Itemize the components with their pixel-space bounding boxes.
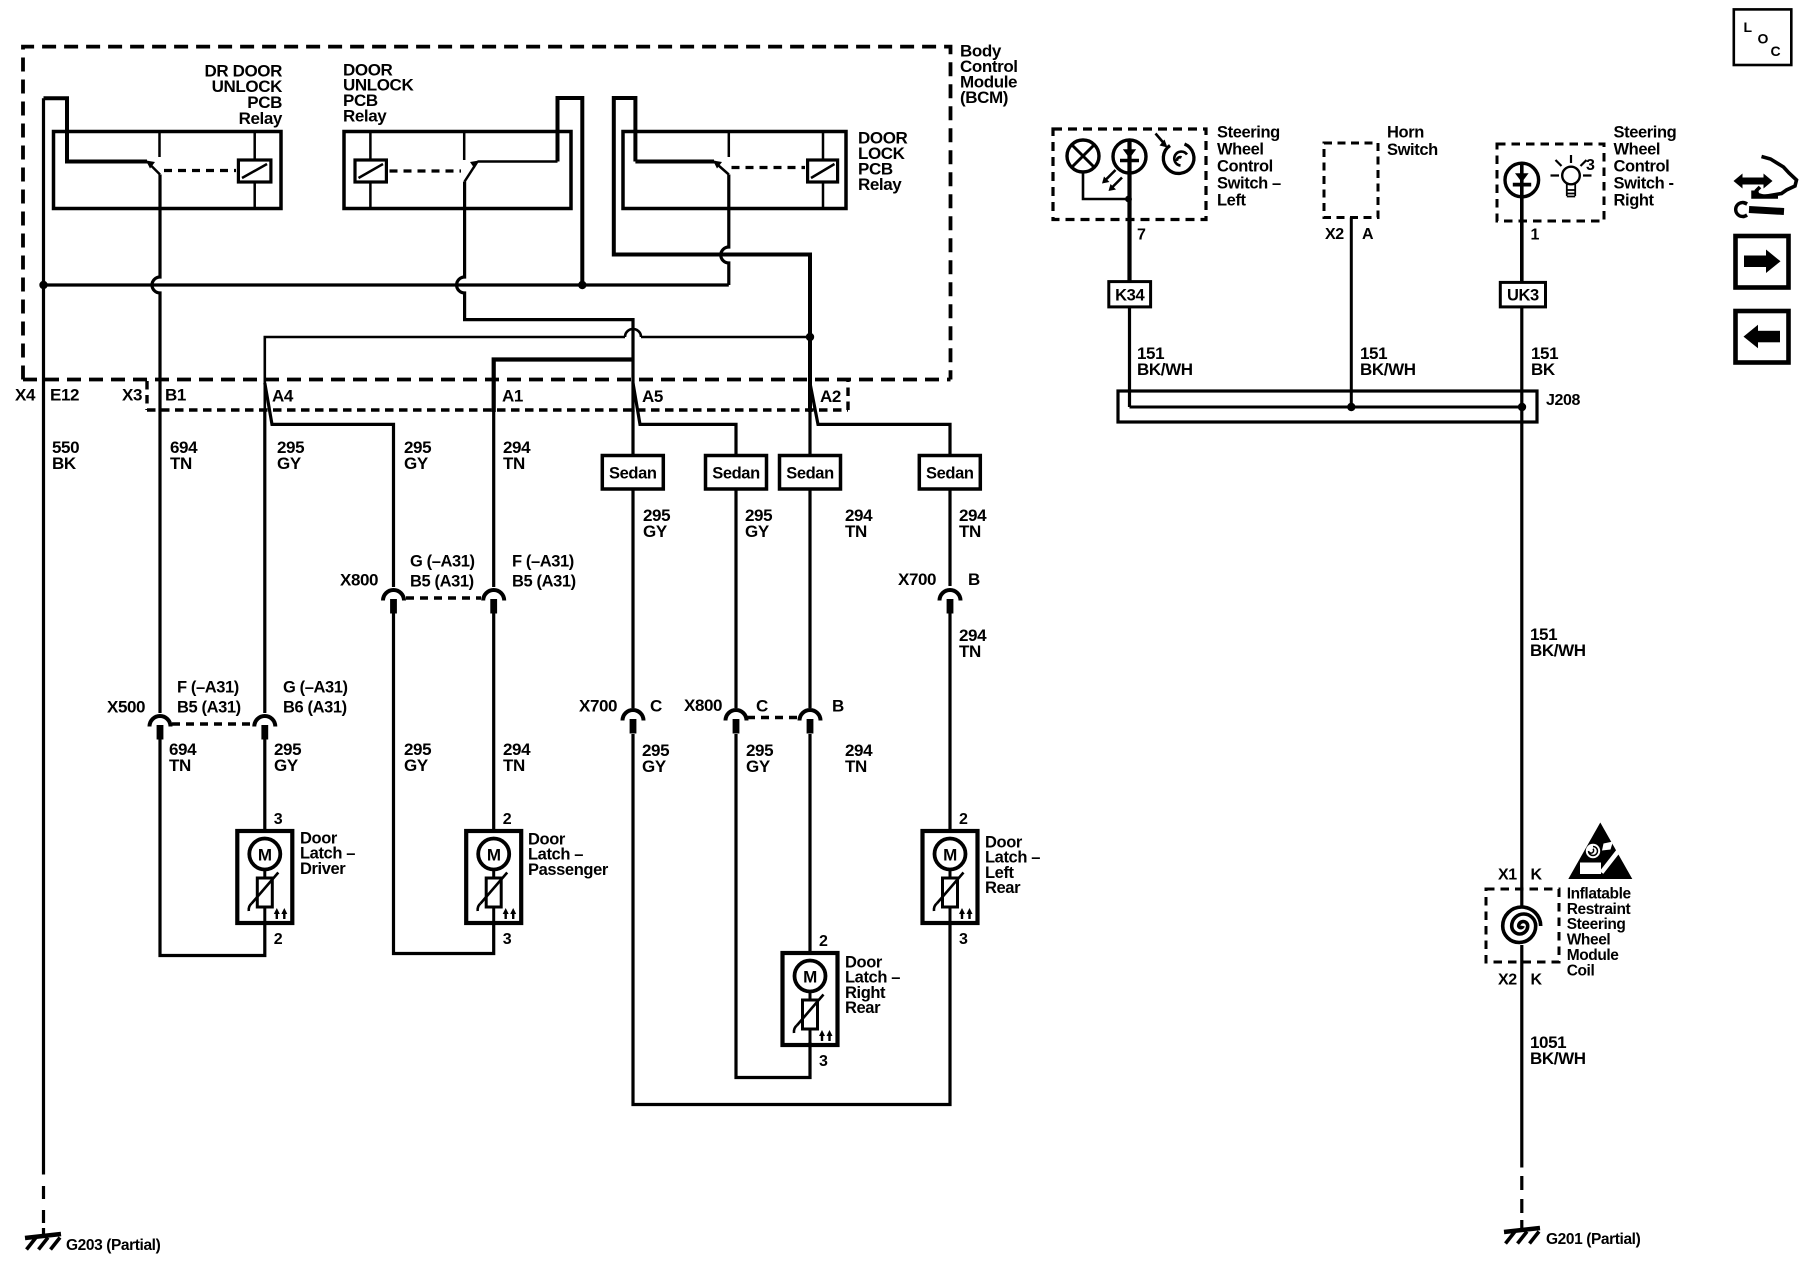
svg-text:X3: X3 <box>122 386 142 405</box>
wire: relay3 common feed <box>614 98 810 412</box>
wire: coil to G201, 1051 BK/WH <box>1520 962 1523 1228</box>
SWCS-L label <box>1217 123 1281 209</box>
svg-text:TN: TN <box>503 756 525 775</box>
svg-text:J208: J208 <box>1546 392 1580 409</box>
SWCS-L lamp symbol <box>1067 140 1099 172</box>
svg-text:GY: GY <box>274 756 299 775</box>
wire label 294 TN (below X700-B) <box>959 626 987 661</box>
wire label 151 BK/WH (left) <box>1137 344 1193 379</box>
svg-text:3: 3 <box>274 811 283 828</box>
svg-text:Horn: Horn <box>1387 123 1424 141</box>
svg-text:Wheel: Wheel <box>1217 140 1264 158</box>
K34 option box <box>1109 282 1151 307</box>
Door Latch - Driver <box>237 811 355 948</box>
svg-text:3: 3 <box>819 1053 828 1070</box>
svg-text:X2: X2 <box>1498 972 1517 989</box>
Body Control Module (BCM) dashed boundary <box>23 47 951 380</box>
svg-text:A5: A5 <box>642 387 663 406</box>
svg-text:Wheel: Wheel <box>1614 140 1661 158</box>
splice pack J208 <box>1118 391 1537 422</box>
wire: A4 / 295 GY straight down to X500 <box>263 410 266 713</box>
wire label 295 GY (below X700-C) <box>642 741 669 776</box>
wire: A2 jog branch to x=950 through Sedan to X700-B <box>810 383 950 586</box>
svg-text:Relay: Relay <box>343 106 387 125</box>
svg-text:B: B <box>832 697 844 716</box>
connector X800C-B dashed tie <box>747 716 799 719</box>
relay: DR DOOR UNLOCK PCB Relay (box) <box>54 132 282 209</box>
SWCS-R LED symbol <box>1505 163 1539 197</box>
SWCS-L gauge symbol <box>1156 134 1194 174</box>
svg-text:GY: GY <box>404 454 429 473</box>
svg-text:Switch: Switch <box>1387 141 1438 159</box>
svg-text:TN: TN <box>845 522 867 541</box>
svg-text:X500: X500 <box>107 698 145 717</box>
svg-text:G (–A31): G (–A31) <box>410 552 475 570</box>
wire: 295 GY X700-C to left-rear latch return <box>633 734 950 1105</box>
X700 C labels <box>579 697 662 716</box>
relay2 label <box>343 60 414 125</box>
svg-text:A1: A1 <box>502 387 523 406</box>
svg-text:M: M <box>487 846 501 865</box>
svg-text:Sedan: Sedan <box>712 465 760 483</box>
svg-text:GY: GY <box>745 522 770 541</box>
X700 B labels <box>898 570 980 589</box>
wire label 1051 BK/WH <box>1530 1033 1586 1068</box>
Sedan option tag on wire x=736 <box>706 456 767 490</box>
wire: horn switch X2-A to J208 <box>1350 218 1353 408</box>
svg-text:X800: X800 <box>340 571 378 590</box>
relay3 dashed actuator link <box>732 166 806 169</box>
Door Latch - Left Rear <box>923 811 1041 948</box>
wire: 295 GY X800-G to passenger latch return <box>394 613 494 954</box>
svg-text:Relay: Relay <box>239 109 283 128</box>
X800 labels <box>340 571 378 590</box>
svg-text:F (–A31): F (–A31) <box>177 678 239 696</box>
svg-text:M: M <box>803 968 817 987</box>
svg-text:Switch –: Switch – <box>1217 174 1281 192</box>
wire label 294 TN (below splice B) <box>845 741 873 776</box>
svg-text:7: 7 <box>1137 227 1146 244</box>
svg-text:Control: Control <box>1217 157 1273 175</box>
SWCS-R bulb symbol <box>1551 155 1592 197</box>
svg-text:2: 2 <box>503 811 512 828</box>
svg-text:L: L <box>1744 19 1753 35</box>
svg-text:B5 (A31): B5 (A31) <box>512 572 576 590</box>
Horn Switch label <box>1387 123 1438 159</box>
Sedan option tag on wire x=949.8 <box>919 456 980 490</box>
svg-text:Steering: Steering <box>1217 123 1280 141</box>
wire: UK3 down through J208 to coil <box>1520 307 1523 889</box>
Steering Wheel Control Switch - Right dashed box <box>1497 144 1604 221</box>
X500 pin G labels <box>283 678 348 716</box>
X500 labels <box>107 698 145 717</box>
relay1 dashed actuator link <box>164 169 236 172</box>
relay3 coil <box>808 132 838 209</box>
relay2 coil <box>355 132 386 209</box>
airbag warning triangle <box>1568 823 1632 880</box>
wire: relay1 switch output to B1 (hop over bus) <box>152 175 160 411</box>
svg-text:BK: BK <box>52 454 77 473</box>
svg-text:BK/WH: BK/WH <box>1530 1049 1586 1068</box>
svg-text:B1: B1 <box>165 386 186 405</box>
Door Latch - Passenger <box>466 811 609 948</box>
wiring repair icon (double arrow, outline, wrench) <box>1734 157 1797 218</box>
wire label 295 GY (sedan2) <box>745 506 772 541</box>
junction dot A4-link / A2 wire <box>806 333 814 341</box>
relay: DOOR LOCK PCB Relay (box) <box>623 132 846 209</box>
horn pin labels X2 A <box>1325 226 1374 243</box>
svg-text:A2: A2 <box>820 387 841 406</box>
svg-text:Sedan: Sedan <box>926 465 974 483</box>
clockspring coil spiral <box>1503 907 1541 943</box>
svg-text:O: O <box>1758 31 1769 47</box>
svg-text:X700: X700 <box>898 570 936 589</box>
svg-text:GY: GY <box>746 757 771 776</box>
connector X700 pin B (wire 950) <box>940 590 961 614</box>
svg-text:Coil: Coil <box>1567 962 1595 979</box>
wire label 151 BK (right) <box>1531 344 1558 379</box>
svg-text:B5 (A31): B5 (A31) <box>177 698 241 716</box>
connector X700 pin C (wire 633) <box>623 710 644 734</box>
ground G201 (Partial) <box>1504 1228 1540 1244</box>
wire: A4 jog branch to x=393.5 <box>265 383 394 587</box>
wire: 694 TN X500 to driver latch return <box>160 739 265 956</box>
UK3 option box <box>1500 282 1545 307</box>
wire label 295 GY (A4) <box>277 438 304 473</box>
svg-text:A4: A4 <box>272 387 294 406</box>
svg-text:TN: TN <box>959 642 981 661</box>
forward arrow icon <box>1736 236 1789 288</box>
connector X800 dashed tie <box>406 596 481 599</box>
connector X500 pin F (wire 160) <box>150 716 171 740</box>
X800 pin F labels <box>512 552 576 590</box>
svg-text:X1: X1 <box>1498 867 1517 884</box>
svg-text:BK/WH: BK/WH <box>1360 360 1416 379</box>
wire: SWCS-R pin 1 to UK3 <box>1520 164 1524 283</box>
wire: 295 GY X500 to driver latch pin 3 <box>263 739 266 831</box>
back arrow icon <box>1736 311 1789 363</box>
wire label 550 BK <box>52 438 79 473</box>
svg-text:TN: TN <box>169 756 191 775</box>
connector X800 pin F (wire 493.7) <box>483 590 504 614</box>
wire: E12 vertical (550 BK circuit) <box>42 98 45 1234</box>
svg-text:Left: Left <box>1217 191 1247 209</box>
wire: A5 jog branch to x=736 through Sedan to X800-C <box>633 383 736 708</box>
coil connector pins X1 K <box>1498 867 1543 884</box>
wire: 295 GY X800-C to right-rear latch return <box>736 734 810 1078</box>
svg-text:TN: TN <box>503 454 525 473</box>
svg-text:2: 2 <box>819 933 828 950</box>
wire: 294 TN X700-B to left-rear latch pin 2 <box>948 612 951 831</box>
svg-text:TN: TN <box>170 454 192 473</box>
Steering Wheel Control Switch - Left dashed box <box>1053 129 1206 220</box>
svg-text:(BCM): (BCM) <box>960 88 1008 107</box>
svg-text:K34: K34 <box>1115 287 1145 305</box>
svg-text:C: C <box>650 697 662 716</box>
BCM connector strip (dashed) <box>147 381 848 410</box>
svg-text:GY: GY <box>404 756 429 775</box>
wire: 294 TN splice B to right-rear latch pin 2 <box>808 734 811 953</box>
relay1 switch <box>146 132 160 175</box>
svg-text:X4: X4 <box>15 386 36 405</box>
pin 1 label <box>1531 227 1540 244</box>
wire label 295 GY (below X800-C) <box>746 741 773 776</box>
junction dot E12 / bus <box>39 281 47 289</box>
svg-text:Right: Right <box>1614 191 1655 209</box>
svg-text:UK3: UK3 <box>1507 287 1539 305</box>
wire: SWCS-L pin 7 to K34 <box>1127 141 1131 282</box>
LOC navigation icon <box>1734 9 1792 65</box>
SWCS-L internal wiring <box>1083 172 1132 202</box>
connector X800 pin G (wire 393.5) <box>383 590 404 614</box>
wire: A2 straight down through Sedan to splice B <box>808 410 811 708</box>
svg-text:GY: GY <box>642 757 667 776</box>
wire: relay2 common riser <box>558 98 583 285</box>
Sedan option tag on wire x=810 <box>780 456 841 490</box>
BCM label <box>960 41 1018 107</box>
svg-text:Driver: Driver <box>300 860 346 878</box>
svg-text:GY: GY <box>643 522 668 541</box>
svg-text:BK: BK <box>1531 360 1556 379</box>
wire label 694 TN (below X500) <box>169 740 197 775</box>
wire label 294 TN (sedan3) <box>845 506 873 541</box>
wire: A5 straight down through Sedan to X700-C <box>631 410 634 708</box>
svg-text:Sedan: Sedan <box>786 465 834 483</box>
svg-text:G203 (Partial): G203 (Partial) <box>66 1237 161 1254</box>
SWCS-R label <box>1614 123 1677 209</box>
J208 label <box>1546 392 1580 409</box>
svg-text:B: B <box>968 570 980 589</box>
svg-text:2: 2 <box>959 811 968 828</box>
svg-text:TN: TN <box>845 757 867 776</box>
connector X800 pin C (wire 736) <box>726 710 747 734</box>
svg-text:3: 3 <box>959 931 968 948</box>
svg-text:Steering: Steering <box>1614 123 1677 141</box>
coil connector pins X2 K <box>1498 972 1543 989</box>
connector X500 pin G (wire 264.8) <box>254 716 275 740</box>
SWCS-L LED symbol <box>1113 140 1146 173</box>
wire: A4 riser and y=337 link to A2 node (hop over A5 wire) <box>265 329 810 412</box>
svg-text:M: M <box>258 846 272 865</box>
wire label 295 GY (below X800-G) <box>404 740 431 775</box>
wire label 295 GY (sedan1) <box>643 506 670 541</box>
svg-text:BK/WH: BK/WH <box>1137 360 1193 379</box>
wire label 151 BK/WH (below J208) <box>1530 625 1586 660</box>
X500 pin F labels <box>177 678 241 716</box>
wire label 294 TN (A1) <box>503 438 531 473</box>
svg-text:X800: X800 <box>684 696 722 715</box>
svg-text:K: K <box>1531 972 1543 989</box>
svg-text:A: A <box>1362 226 1374 243</box>
wire label 295 GY (below X500) <box>274 740 301 775</box>
svg-text:X2: X2 <box>1325 226 1344 243</box>
X800 pin G labels <box>410 552 475 590</box>
svg-text:B5 (A31): B5 (A31) <box>410 572 474 590</box>
svg-text:X700: X700 <box>579 697 617 716</box>
svg-text:M: M <box>943 846 957 865</box>
svg-text:G201 (Partial): G201 (Partial) <box>1546 1231 1641 1248</box>
connector pin labels X4 E12 X3 B1 A4 A1 A5 A2 <box>15 386 841 407</box>
svg-text:3: 3 <box>503 931 512 948</box>
connector X500 dashed tie <box>172 722 252 725</box>
relay: DOOR UNLOCK PCB Relay (box) <box>344 132 571 209</box>
wire label 295 GY (jog) <box>404 438 431 473</box>
svg-text:Relay: Relay <box>858 175 902 194</box>
coil module label <box>1567 885 1632 979</box>
wire: A1 branch from A5 node <box>494 360 633 413</box>
Sedan option tag on wire x=632.8 <box>602 456 663 490</box>
svg-text:Sedan: Sedan <box>609 465 657 483</box>
svg-text:Switch -: Switch - <box>1614 174 1674 192</box>
X800 C / B labels <box>684 696 844 716</box>
wire: A1 / 294 TN down to X800 <box>492 410 495 587</box>
wire: 294 TN X800-F to passenger latch pin 2 <box>492 613 495 831</box>
svg-text:2: 2 <box>274 931 283 948</box>
wire label 294 TN (sedan4) <box>959 506 987 541</box>
relay2 switch <box>464 132 557 182</box>
svg-text:Control: Control <box>1614 157 1670 175</box>
svg-text:TN: TN <box>959 522 981 541</box>
pin 7 label <box>1137 227 1146 244</box>
relay3 switch <box>713 132 729 175</box>
wire: internal bus y=285 (E12 to relay3 switch) with hop over relay3 feed <box>44 175 729 286</box>
Horn Switch dashed box <box>1324 143 1378 218</box>
svg-text:K: K <box>1531 867 1543 884</box>
relay1 coil <box>238 132 271 209</box>
svg-text:Rear: Rear <box>985 879 1021 897</box>
relay3 label <box>858 128 908 194</box>
svg-text:GY: GY <box>277 454 302 473</box>
svg-text:B6 (A31): B6 (A31) <box>283 698 347 716</box>
Inflatable Restraint Steering Wheel Module Coil dashed box <box>1486 889 1559 962</box>
svg-text:C: C <box>1771 43 1781 59</box>
wire through coil <box>1520 889 1523 962</box>
wire label 151 BK/WH (horn) <box>1360 344 1416 379</box>
svg-text:E12: E12 <box>50 386 79 405</box>
relay1 label <box>205 61 284 127</box>
wire: E12 feed to relay1 common <box>44 98 148 161</box>
svg-text:G (–A31): G (–A31) <box>283 678 348 696</box>
Door Latch - Right Rear <box>783 933 901 1070</box>
wire: relay2 switch output to A5/A1 (hop over bus) <box>457 182 633 413</box>
svg-text:1: 1 <box>1531 227 1540 244</box>
svg-text:Rear: Rear <box>845 999 881 1017</box>
wire label 694 TN <box>170 438 198 473</box>
SWCS-L illumination rays <box>1102 170 1122 191</box>
wire: B1 / 694 TN down to X500 <box>158 410 161 713</box>
relay2 dashed actuator link <box>390 169 462 172</box>
splice B (wire 810) <box>800 710 821 734</box>
svg-text:Passenger: Passenger <box>528 861 609 879</box>
svg-text:3: 3 <box>1586 157 1595 174</box>
SWCS-R quantity 3 <box>1586 157 1595 174</box>
ground G203 (Partial) <box>25 1234 61 1250</box>
svg-text:F (–A31): F (–A31) <box>512 552 574 570</box>
junction dot bus / relay2 riser <box>578 281 586 289</box>
wire label 294 TN (below X800-F) <box>503 740 531 775</box>
wire: K34 to J208, 151 BK/WH <box>1128 307 1131 407</box>
svg-text:C: C <box>756 697 768 716</box>
svg-text:BK/WH: BK/WH <box>1530 641 1586 660</box>
